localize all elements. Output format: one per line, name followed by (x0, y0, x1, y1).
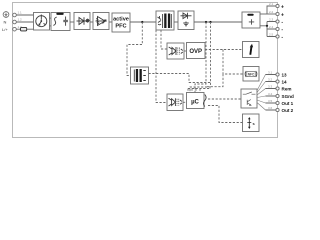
dashed bus into uC (188, 89, 211, 93)
svg-text:2.4: 2.4 (269, 25, 274, 29)
dashed transformer to opto1 (161, 30, 167, 49)
signal terminal Out2 (268, 106, 294, 113)
svg-text:+: + (281, 4, 284, 10)
wire - branch (266, 22, 268, 37)
dashed NFC branch (207, 50, 243, 87)
svg-text:1.2: 1.2 (18, 18, 23, 22)
svg-text:N: N (4, 20, 7, 25)
wire L (16, 28, 33, 30)
wire + out (260, 13, 276, 15)
svg-text:2.5: 2.5 (269, 32, 274, 36)
terminal L input (2, 27, 16, 32)
svg-text:3.4: 3.4 (268, 92, 273, 96)
wire b1-b2 upper (50, 17, 52, 19)
svg-text:3.6: 3.6 (268, 106, 273, 110)
svg-text:L/+: L/+ (2, 27, 8, 32)
svg-text:3.1: 3.1 (268, 70, 273, 74)
svg-text:2.3: 2.3 (269, 17, 274, 21)
enclosure frame (13, 3, 278, 138)
fuse F1 (21, 27, 27, 31)
terminal N input (4, 20, 17, 25)
dashed transformer to opto2 (156, 30, 167, 103)
signal relay block (241, 89, 257, 108)
aux transformer T2 (131, 67, 149, 84)
svg-text:3.2: 3.2 (268, 77, 273, 81)
dashed opto2-uC (183, 101, 187, 103)
signal terminal Out1 (268, 99, 294, 106)
dashed uC to potentiometer (208, 106, 243, 123)
optocoupler U3 (167, 94, 183, 111)
svg-text:1.1: 1.1 (18, 11, 23, 15)
input filter block (51, 13, 70, 31)
svg-text:Rem: Rem (282, 87, 292, 92)
wire + branch (267, 6, 276, 14)
svg-text:SGnd: SGnd (282, 94, 294, 99)
wire PE (16, 14, 33, 16)
wire b1-b2 lower (50, 25, 52, 27)
signal stubs (266, 75, 277, 111)
dashed opto1-OVP (184, 50, 187, 52)
surge protection block (34, 13, 50, 31)
svg-text:active: active (113, 17, 129, 23)
output terminal 2.1 (269, 2, 284, 10)
wire b3-b4 (90, 21, 93, 23)
junction dot B (209, 21, 211, 23)
svg-text:13: 13 (282, 73, 288, 78)
wire b5-transformer (130, 21, 156, 23)
output terminal 2.4 (269, 25, 283, 33)
wire transformer-outrect (174, 21, 178, 23)
inrush limiter block (93, 13, 109, 30)
svg-text:PFC: PFC (115, 24, 126, 30)
dashed drop B to uC (190, 22, 211, 93)
signal terminal 13 (268, 70, 287, 77)
output terminal 2.3 (269, 17, 283, 25)
signal terminal SGnd (268, 92, 294, 99)
potentiometer block (243, 114, 260, 132)
signal terminal Rem (268, 84, 291, 91)
wire N (16, 21, 33, 23)
dashed PFC to aux transformer (127, 22, 142, 76)
svg-text:NFC: NFC (248, 73, 255, 77)
dashed uC to relay block (208, 98, 241, 100)
svg-text:OVP: OVP (189, 49, 202, 55)
svg-text:3.5: 3.5 (268, 99, 273, 103)
output capacitor block (242, 12, 260, 28)
active PFC block (112, 13, 130, 32)
junction dot C (266, 25, 268, 27)
wire b4-b5 (109, 21, 112, 23)
NFC block (243, 67, 259, 82)
svg-text:2.2: 2.2 (269, 10, 274, 14)
svg-text:3.3: 3.3 (268, 84, 273, 88)
terminal PE input (3, 12, 16, 18)
dashed drop A to uC (195, 22, 206, 93)
svg-text:2.1: 2.1 (269, 2, 274, 6)
wire b2-b3 (70, 21, 74, 23)
current sensor block (243, 42, 260, 58)
transformer block (156, 11, 174, 30)
signal fan wires (257, 75, 266, 111)
svg-text:+: + (281, 12, 284, 18)
OVP block (187, 43, 206, 59)
rectifier block (74, 13, 90, 30)
signal terminal 14 (268, 77, 287, 84)
output terminal 2.2 (269, 10, 284, 18)
microcontroller block (187, 93, 207, 109)
dashed OVP bus to current sensor (205, 49, 243, 51)
wire - out (260, 22, 276, 37)
svg-text:µC: µC (191, 100, 199, 106)
junction dot A (205, 21, 207, 23)
junction dot (141, 21, 143, 23)
svg-text:14: 14 (282, 80, 288, 85)
wire outrect-capblock (194, 21, 242, 23)
svg-text:Out 2: Out 2 (282, 108, 294, 113)
output rectifier block (178, 11, 194, 30)
optocoupler U2 (167, 43, 184, 59)
output terminal 2.5 (269, 32, 283, 40)
svg-text:Out 1: Out 1 (282, 101, 294, 106)
dashed aux to uC (149, 74, 211, 83)
